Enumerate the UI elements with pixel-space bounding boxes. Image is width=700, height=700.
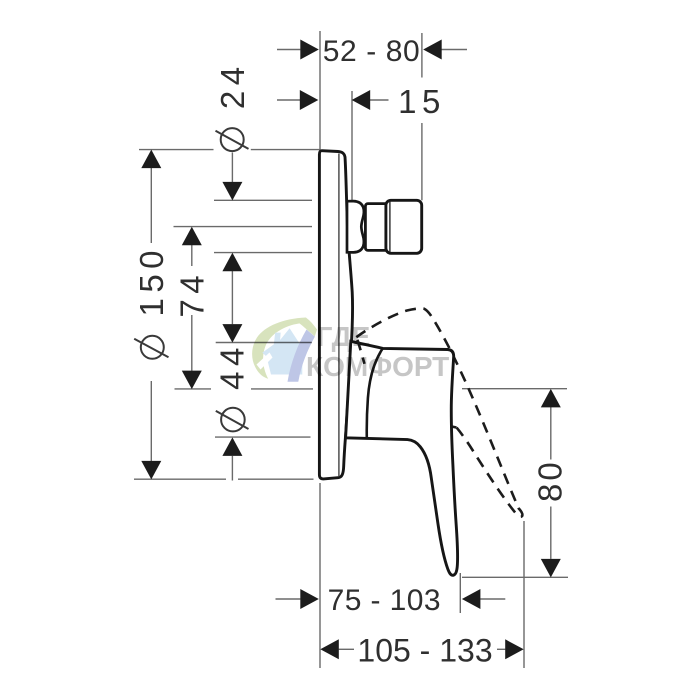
arrow O24 bottom (up) xyxy=(222,253,242,272)
plate inner contour line xyxy=(338,154,340,477)
wall plate (escutcheon) side view xyxy=(319,151,352,479)
arrow 80 top (up) xyxy=(541,389,561,408)
watermark text line 2 xyxy=(306,351,449,383)
wire: horizontal extension y437 (hub bottom) xyxy=(215,436,311,438)
watermark logo leaf crescent xyxy=(252,318,307,379)
dashed handle lower edge visible over hub xyxy=(357,340,364,364)
arrow 52-80 right xyxy=(423,40,442,60)
wire: extension line x421.9 (52-80 right) xyxy=(421,33,423,78)
wire: dim 150 vertical segments xyxy=(150,168,152,243)
arrow 150 bottom (down) xyxy=(141,461,161,480)
wire: extension line dashed handle tip xyxy=(523,521,525,668)
wire: dim 75-103 tails xyxy=(276,598,301,600)
arrow 15 left xyxy=(300,90,319,110)
wire: horizontal extension y479.2 (plate bottom) xyxy=(134,478,226,480)
watermark logo white chevron notch xyxy=(257,353,273,370)
dashed handle lower edge (hidden part under lever) xyxy=(358,341,457,428)
arrow 44 bottom (up) xyxy=(222,437,242,456)
arrow 75-103 left xyxy=(300,589,319,609)
wire: extension line solid handle tip xyxy=(459,573,461,613)
watermark logo leaf tail xyxy=(299,318,317,337)
watermark text line 1 xyxy=(317,321,371,353)
arrow 150 top (up) xyxy=(141,150,161,169)
watermark logo periwinkle band xyxy=(288,330,315,382)
spindle adapter sleeve xyxy=(347,201,364,252)
wire: dim 15 tails xyxy=(277,99,300,101)
wire: horizontal extension y577.3 right (80 bottom) xyxy=(462,576,568,578)
wire: extension line plate-left top xyxy=(319,31,321,150)
arrow 52-80 left xyxy=(300,40,319,60)
diameter symbol for O24 xyxy=(216,128,249,151)
arrow 80 bottom (down) xyxy=(541,559,561,578)
knob outer section xyxy=(386,200,422,253)
diameter symbol for O150 xyxy=(134,336,168,359)
lever handle (solid) xyxy=(346,341,458,575)
wire: dim O24 vertical segments xyxy=(231,153,233,183)
wire: dim 80 vertical segments xyxy=(550,407,552,460)
knob chamfer line xyxy=(389,202,391,253)
arrow 74 top (up) xyxy=(182,227,202,246)
wire: dim 44 lower vertical segment xyxy=(231,456,233,481)
arrow O24 top (down) xyxy=(222,182,242,201)
arrow 105-133 left xyxy=(320,639,339,659)
wire: horizontal extension y149.3 (plate top) xyxy=(139,149,214,151)
wire: dim 74 vertical segments xyxy=(191,245,193,266)
knob inner section xyxy=(365,204,387,251)
watermark logo house xyxy=(262,328,302,374)
wire: horizontal extension y342.5 (hub top) xyxy=(216,342,312,344)
dashed handle alternate position outline xyxy=(356,308,522,516)
wire: horizontal extension y252.6 (knob bottom) xyxy=(214,252,312,254)
wire: horizontal extension y200.3 (knob top) xyxy=(214,199,312,201)
wire: horizontal extension y388.9 left segments (hub center) xyxy=(175,388,212,390)
arrow 44 top (down) xyxy=(222,324,242,343)
wire: extension line x352 (15 dim right) xyxy=(351,91,353,201)
wire: horizontal extension y388.6 right (80 top) xyxy=(462,388,567,390)
wire: horizontal extension y226.6 (spindle center) xyxy=(174,226,313,228)
wire: dim 52-80 tails xyxy=(277,49,300,51)
wire: extension line plate-left bottom xyxy=(319,483,321,668)
arrow 105-133 right xyxy=(505,639,524,659)
arrow 75-103 right xyxy=(462,589,481,609)
lever hub cone interior line xyxy=(367,349,383,438)
arrow 74 bottom (down) xyxy=(182,371,202,390)
diameter symbol for O44 xyxy=(216,408,249,432)
wire: dim 105-133 inner segments xyxy=(339,648,354,650)
arrow 15 right xyxy=(352,90,371,110)
